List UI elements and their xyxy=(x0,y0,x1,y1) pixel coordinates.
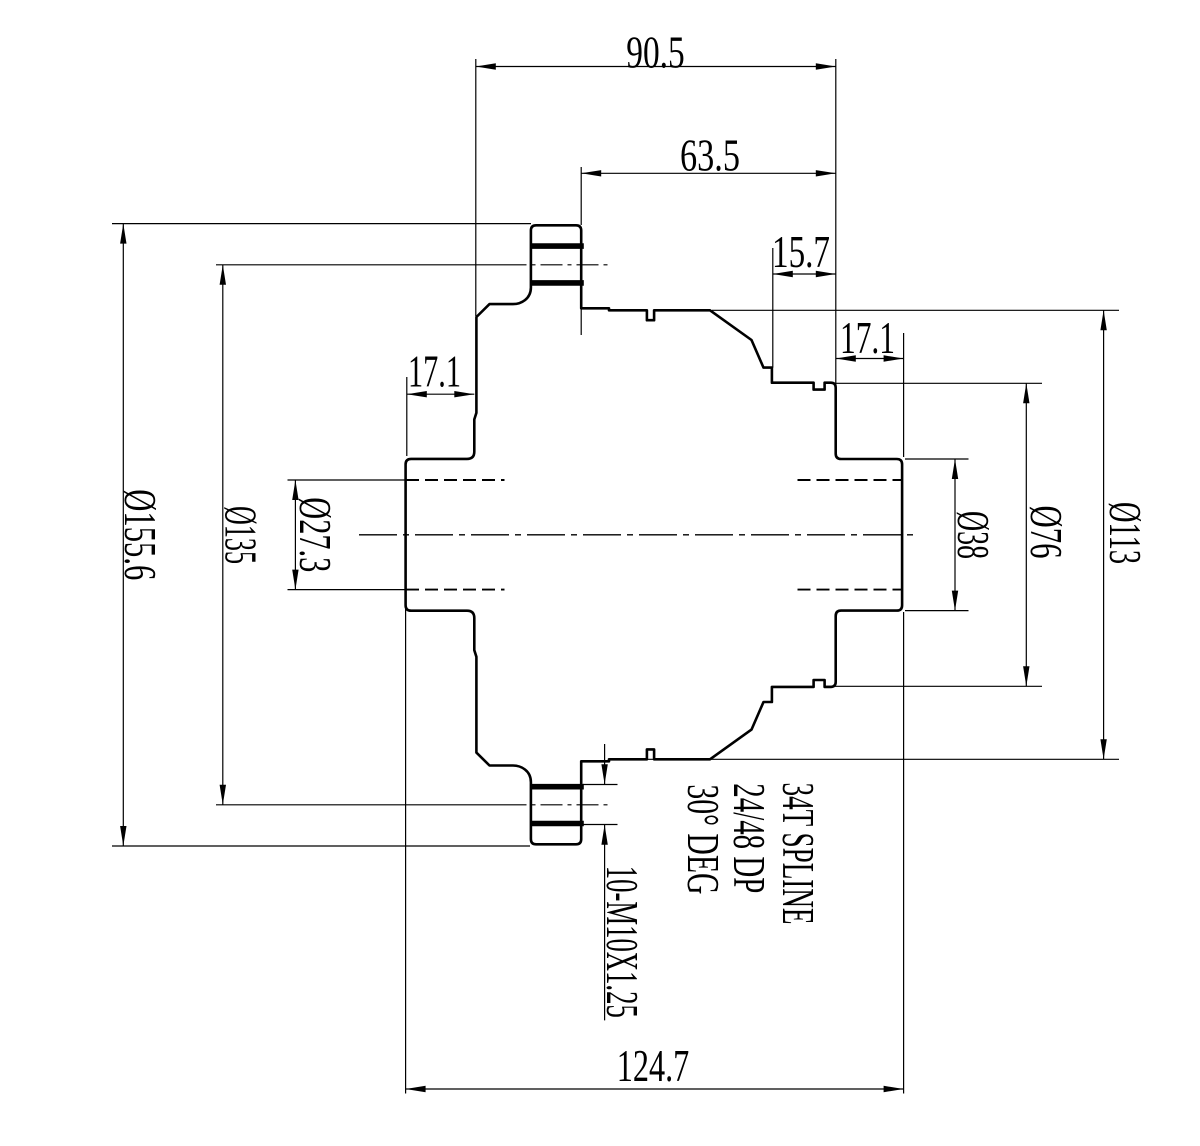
arrow bottom phi155.6 xyxy=(120,826,126,846)
svg-text:15.7: 15.7 xyxy=(772,226,830,277)
dim line phi113 xyxy=(1103,310,1105,759)
ext line top of phi113 xyxy=(712,309,1119,311)
dim line phi155.6 xyxy=(122,224,124,846)
svg-text:Ø113: Ø113 xyxy=(1100,502,1151,564)
ext line bottom of phi135 xyxy=(216,804,505,806)
hidden bore line top-right xyxy=(798,479,902,481)
arrow left 124.7 xyxy=(406,1086,426,1092)
top stud centerline (dash-dot) xyxy=(505,264,610,266)
svg-text:17.1: 17.1 xyxy=(408,346,461,397)
arrow left 15.7 xyxy=(773,271,793,277)
dim line 15.7 xyxy=(773,273,836,275)
bottom stud centerline (dash-dot) xyxy=(505,804,610,806)
svg-text:90.5: 90.5 xyxy=(626,27,685,78)
main centerline (dash-dot) xyxy=(359,534,918,536)
svg-text:Ø27.3: Ø27.3 xyxy=(290,497,341,572)
svg-text:Ø76: Ø76 xyxy=(1021,506,1072,559)
dim line phi27.3 xyxy=(294,480,296,590)
ext line left of 63.5 upper stub xyxy=(580,167,582,225)
leader lower segment M10 xyxy=(604,825,606,1021)
dim line phi76 xyxy=(1025,383,1027,686)
arrow top phi113 xyxy=(1100,310,1106,330)
ext line top of phi27.3 xyxy=(288,479,407,481)
arrow right 63.5 xyxy=(816,170,836,176)
arrow top phi38 xyxy=(952,459,958,479)
svg-text:Ø135: Ø135 xyxy=(216,506,267,564)
ext line top of M10 xyxy=(583,784,618,786)
ext line top of phi155.6 xyxy=(112,223,531,225)
dim line 124.7 xyxy=(406,1088,904,1090)
ext line top of phi135 xyxy=(216,264,505,266)
svg-text:Ø155.6: Ø155.6 xyxy=(115,489,166,580)
svg-text:34T SPLINE: 34T SPLINE xyxy=(773,783,824,925)
arrow bottom phi76 xyxy=(1023,666,1029,686)
ext line top of phi76 xyxy=(826,382,1042,384)
arrow down M10 xyxy=(601,764,607,784)
svg-text:Ø38: Ø38 xyxy=(948,511,999,559)
dim line 17.1R xyxy=(836,358,904,360)
ext line top of phi38 xyxy=(905,458,969,460)
ext line bottom of phi38 xyxy=(905,610,969,612)
arrow bottom phi113 xyxy=(1100,739,1106,759)
arrow right 15.7 xyxy=(816,271,836,277)
arrow top phi135 xyxy=(220,265,226,285)
arrow bottom phi38 xyxy=(952,591,958,611)
ext line bottom of phi155.6 xyxy=(112,845,530,847)
dim line 63.5 xyxy=(581,172,836,174)
svg-text:10-M10X1.25: 10-M10X1.25 xyxy=(597,866,648,1018)
dim line 17.1L xyxy=(407,393,475,395)
svg-text:124.7: 124.7 xyxy=(617,1040,690,1091)
dim line phi38 xyxy=(954,459,956,611)
hub cross-section lower half (mirror) xyxy=(406,535,902,845)
arrow left 17.1L xyxy=(407,391,427,397)
ext line left of 90.5 xyxy=(475,59,477,316)
ext line left of 63.5 lower stub xyxy=(580,308,582,335)
ext line left of 124.7 xyxy=(405,608,407,1094)
arrow left 63.5 xyxy=(581,170,601,176)
svg-text:17.1: 17.1 xyxy=(840,312,895,363)
ext line bottom of M10 xyxy=(583,824,618,826)
hidden bore line bottom-right xyxy=(798,589,902,591)
hidden bore line top-left xyxy=(406,479,505,481)
svg-text:30° DEG: 30° DEG xyxy=(678,784,729,894)
arrow left 17.1R xyxy=(836,355,856,361)
ext line bottom of phi27.3 xyxy=(288,589,407,591)
svg-text:24/48 DP: 24/48 DP xyxy=(724,783,775,893)
ext line right of 90.5/63.5/15.7 xyxy=(835,59,837,385)
arrow right 90.5 xyxy=(816,63,836,69)
ext line right of 124.7 xyxy=(903,612,905,1094)
ext line bottom of phi76 xyxy=(826,685,1042,687)
arrow top phi155.6 xyxy=(120,224,126,244)
ext line left of 15.7 xyxy=(772,248,774,368)
arrow top phi76 xyxy=(1023,383,1029,403)
arrow left 90.5 xyxy=(476,63,496,69)
arrow up M10 xyxy=(601,825,607,845)
arrow right 17.1R xyxy=(884,355,904,361)
leader upper segment M10 xyxy=(604,744,606,784)
hidden bore line bottom-left xyxy=(406,589,505,591)
arrow bottom phi135 xyxy=(220,785,226,805)
hub cross-section upper half xyxy=(406,225,902,535)
arrow top phi27.3 xyxy=(292,480,298,500)
arrow right 124.7 xyxy=(884,1086,904,1092)
ext line bottom of phi113 xyxy=(612,758,1119,760)
svg-text:63.5: 63.5 xyxy=(680,130,740,181)
ext line right of 17.1R xyxy=(903,333,905,457)
arrow right 17.1L xyxy=(454,391,474,397)
dim line 90.5 xyxy=(476,66,836,68)
arrow bottom phi27.3 xyxy=(292,570,298,590)
ext line left of 17.1L xyxy=(406,377,408,456)
dim line phi135 xyxy=(222,265,224,805)
